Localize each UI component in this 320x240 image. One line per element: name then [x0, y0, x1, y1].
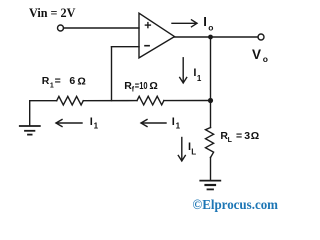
svg-text:6: 6 — [69, 75, 75, 87]
wire resistor R1 to resistor Rf — [83, 100, 137, 102]
label I1 (left) — [90, 116, 99, 130]
current arrow I1 (down, from output node) — [180, 58, 187, 83]
svg-text:R: R — [42, 75, 50, 87]
wire Vin terminal to op-amp noninverting input — [64, 27, 140, 29]
svg-text:Ω: Ω — [251, 130, 259, 142]
output terminal Vo — [258, 34, 264, 40]
current arrow IL (down, into RL) — [178, 138, 185, 162]
label RL = 3 ohm — [220, 130, 259, 144]
wire op-amp inverting input to feedback node — [112, 46, 140, 48]
label R1 = 6 ohm — [42, 75, 86, 89]
resistor Rf — [137, 96, 164, 105]
op-amp U1 — [139, 13, 175, 58]
svg-text:I: I — [172, 116, 175, 128]
svg-text:L: L — [191, 148, 196, 157]
svg-text:o: o — [208, 23, 213, 33]
label Rf = 10 ohm — [124, 80, 158, 94]
current arrow I1 (left, under R1) — [56, 120, 82, 127]
svg-text:Ω: Ω — [77, 75, 85, 87]
svg-text:=: = — [55, 75, 61, 87]
svg-text:1: 1 — [50, 82, 54, 89]
svg-text:L: L — [228, 137, 233, 144]
svg-text:=10: =10 — [135, 80, 148, 92]
label I1 (middle) — [172, 116, 181, 130]
svg-text:3: 3 — [244, 130, 250, 142]
svg-text:1: 1 — [94, 122, 99, 131]
wire resistor Rf to feedback junction — [164, 100, 211, 102]
wire feedback vertical segment — [111, 47, 113, 101]
wire feedback junction down to resistor RL — [210, 101, 212, 128]
svg-text:I: I — [90, 116, 93, 128]
svg-text:o: o — [263, 54, 268, 64]
svg-text:©Elprocus.com: ©Elprocus.com — [193, 197, 279, 212]
current arrow Io — [172, 20, 197, 27]
wire ground to resistor R1 — [30, 100, 57, 102]
svg-text:Ω: Ω — [149, 80, 157, 92]
svg-text:Vin = 2V: Vin = 2V — [29, 6, 76, 20]
label I1 (upper) — [193, 67, 202, 83]
wire resistor RL to ground — [210, 158, 212, 181]
svg-text:1: 1 — [197, 74, 202, 83]
ground (left) — [20, 101, 40, 135]
node feedback junction — [208, 98, 213, 103]
node output junction — [208, 35, 213, 40]
current arrow I1 (middle, under Rf) — [141, 120, 166, 127]
label Io — [203, 14, 213, 32]
input terminal Vin — [58, 25, 64, 31]
wire op-amp output to terminal Vo — [175, 36, 259, 38]
resistor R1 — [57, 96, 84, 105]
svg-text:I: I — [203, 14, 207, 29]
svg-text:V: V — [252, 47, 261, 62]
resistor RL — [206, 128, 214, 158]
svg-text:=: = — [236, 130, 242, 142]
wire output junction down to feedback junction — [210, 37, 212, 101]
label Vo — [252, 47, 268, 64]
svg-text:1: 1 — [176, 122, 181, 131]
label IL — [188, 141, 196, 157]
ground (right, under RL) — [200, 181, 220, 190]
